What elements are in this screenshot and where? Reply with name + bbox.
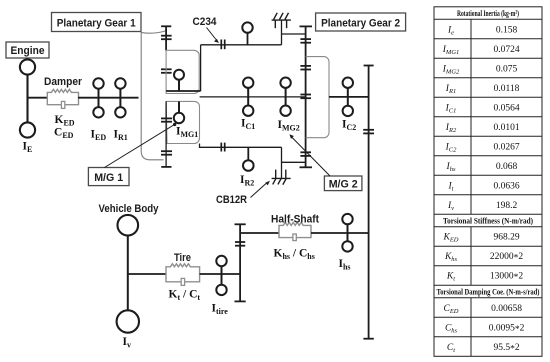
ground (case) hatch top — [272, 13, 291, 28]
engine inertia circle I_E — [20, 122, 35, 137]
svg-text:Half-Shaft: Half-Shaft — [271, 214, 319, 226]
label box: Engine — [6, 42, 49, 58]
svg-text:Khs / Chs: Khs / Chs — [274, 248, 315, 262]
arrow M/G1 to I_MG1 — [105, 123, 177, 168]
PG1 lever: top T-bar — [161, 25, 171, 27]
svg-text:CED: CED — [54, 127, 74, 141]
leader: PG1 box down to lower mesh — [141, 32, 163, 160]
wire: body to tire — [128, 273, 166, 275]
label box: Planetary Gear 1 — [52, 13, 142, 32]
damper K_ED/C_ED box — [47, 89, 78, 104]
PG2 gear mesh (main shaft) — [300, 95, 311, 99]
PG1 carrier link (rounded) — [166, 50, 199, 93]
inertia I_C2 dumbbell — [343, 78, 353, 117]
table frame — [434, 7, 542, 357]
svg-text:0.0636: 0.0636 — [493, 181, 519, 191]
label box: Planetary Gear 2 — [316, 13, 406, 31]
inertia circle I_MG1 — [174, 113, 184, 123]
svg-text:0.158: 0.158 — [496, 25, 518, 35]
arrow M/G2 to I_MG2 — [289, 134, 330, 176]
svg-text:Engine: Engine — [11, 45, 45, 57]
label box: M/G 2 — [324, 176, 362, 191]
stem of node — [247, 33, 249, 45]
inertia circle I_R2 — [243, 160, 254, 171]
svg-text:IMG2: IMG2 — [278, 119, 300, 133]
PG2 lever: top T-bar — [300, 25, 313, 27]
PG2 gear mesh (b) — [300, 66, 311, 70]
inertia I_MG2 dumbbell — [280, 78, 290, 116]
arrow CB12R — [251, 181, 270, 198]
wire: tire box to I_tire — [200, 273, 241, 275]
inertia I_tire dumbbell — [216, 256, 226, 295]
axle connector vertical — [239, 224, 241, 301]
inertia I_ED dumbbell — [93, 78, 103, 117]
wire: damper to PG1 — [78, 97, 139, 99]
svg-text:0.075: 0.075 — [496, 64, 518, 74]
output vertical shaft — [368, 66, 370, 339]
branch R2 to PG2 — [282, 161, 306, 163]
vehicle inertia circle I_v — [117, 310, 139, 332]
engine top node circle — [20, 59, 35, 74]
svg-text:0.0267: 0.0267 — [493, 142, 519, 152]
final drive gear mesh — [363, 130, 374, 134]
PG2 gear mesh (lower) — [300, 152, 311, 156]
svg-text:0.0564: 0.0564 — [493, 103, 519, 113]
svg-text:0.0724: 0.0724 — [493, 45, 519, 55]
leader: PG1 box to ring node (curve) — [141, 31, 166, 34]
svg-text:C234: C234 — [193, 16, 218, 28]
wire: R2 line — [200, 144, 282, 148]
svg-text:Ihs: Ihs — [339, 258, 351, 272]
half-shaft damper box — [279, 222, 311, 237]
svg-text:Kt / Ct: Kt / Ct — [169, 289, 201, 303]
wire: C234 clutch line — [201, 44, 282, 46]
label box: M/G 1 — [88, 168, 129, 186]
stem of sun node — [178, 80, 180, 91]
PG1 lever stem — [165, 26, 167, 50]
riser hatch to C234 line — [281, 20, 283, 45]
dashpot symbol in tire box — [181, 278, 184, 285]
svg-text:0.0118: 0.0118 — [494, 84, 520, 94]
svg-text:IC2: IC2 — [342, 119, 356, 133]
svg-text:0.00658: 0.00658 — [491, 304, 522, 314]
inertia I_hs dumbbell — [342, 214, 352, 252]
svg-text:M/G 1: M/G 1 — [94, 172, 123, 184]
svg-text:Damper: Damper — [44, 76, 83, 88]
ground (case) hatch bottom CB12R — [272, 170, 291, 185]
wire: output shaft to I_C2 — [329, 96, 369, 98]
svg-text:Iv: Iv — [123, 336, 131, 350]
clutch CB1 plates on R2 line — [221, 143, 224, 152]
axle gear mesh — [235, 242, 245, 246]
svg-text:968.29: 968.29 — [493, 232, 519, 242]
svg-text:Planetary Gear 2: Planetary Gear 2 — [321, 18, 400, 30]
svg-text:KED: KED — [55, 114, 75, 128]
PG1 lower stem — [165, 101, 167, 166]
svg-text:IR1: IR1 — [114, 129, 128, 143]
svg-text:IC1: IC1 — [241, 117, 255, 131]
svg-text:198.2: 198.2 — [496, 201, 518, 211]
wire: axle to half-shaft box — [240, 232, 279, 234]
PG2 lever stem — [305, 26, 307, 167]
svg-text:Torsional Damping Coe. (N-m-s/: Torsional Damping Coe. (N-m-s/rad) — [437, 288, 540, 297]
svg-text:0.068: 0.068 — [496, 162, 518, 172]
svg-text:Torsional Stiffness (N-m/rad): Torsional Stiffness (N-m/rad) — [443, 217, 533, 226]
PG1 gear mesh (lower b) — [161, 151, 172, 155]
svg-text:Itire: Itire — [212, 303, 229, 317]
inertia I_C1 dumbbell — [243, 78, 253, 116]
branch to PG2 ring — [282, 33, 306, 35]
PG2 carrier link (rounded) — [306, 57, 329, 138]
vehicle body top circle — [118, 215, 139, 236]
PG1 bottom bar of upper assembly — [166, 90, 201, 92]
svg-text:0.0101: 0.0101 — [493, 123, 519, 133]
table row lines — [434, 19, 542, 337]
riser R2 to brake hatch — [281, 147, 283, 178]
stem of I_R2 — [247, 147, 249, 160]
engine shaft vertical — [26, 75, 28, 123]
riser to C234 line — [200, 45, 202, 91]
vehicle body shaft — [127, 236, 129, 311]
svg-text:IE: IE — [23, 141, 33, 155]
PG1 gear mesh (ring) — [161, 36, 172, 40]
node circle on C234 line — [242, 22, 252, 32]
PG1 lower link box (rounded) — [166, 101, 199, 143]
svg-text:Vehicle Body: Vehicle Body — [99, 203, 160, 215]
svg-text:IR2: IR2 — [240, 174, 254, 188]
output bottom T-bar — [363, 338, 373, 340]
svg-text:Rotational Inertia (kg-m2): Rotational Inertia (kg-m2) — [457, 9, 519, 18]
table column separator — [470, 19, 472, 356]
dashpot symbol in half-shaft box — [293, 234, 296, 241]
svg-text:Tire: Tire — [174, 252, 191, 264]
inertia I_R1 dumbbell — [115, 78, 125, 117]
PG2 bottom T-bar — [300, 166, 313, 168]
axle connector top T-bar — [235, 223, 246, 225]
axle connector bottom T-bar — [235, 300, 246, 302]
PG1 sun node circle — [174, 70, 184, 80]
svg-text:IED: IED — [91, 129, 107, 143]
stem of I_MG1 — [178, 101, 180, 112]
wire: engine to damper — [28, 97, 48, 99]
PG2 gear mesh (ring) — [300, 39, 311, 43]
PG1 bottom T-bar — [161, 166, 171, 168]
wire: half-shaft to output — [311, 232, 369, 234]
svg-text:Planetary Gear 1: Planetary Gear 1 — [57, 18, 136, 30]
svg-text:IMG1: IMG1 — [176, 126, 198, 140]
dashpot symbol in damper — [61, 101, 64, 108]
PG1 gear mesh (lower a) — [161, 118, 172, 121]
svg-text:M/G 2: M/G 2 — [329, 179, 358, 191]
svg-text:CB12R: CB12R — [216, 194, 247, 206]
parameter table — [434, 7, 542, 357]
arrow C234 — [207, 28, 220, 43]
wire: main middle shaft — [200, 96, 306, 98]
clutch C234 plates — [221, 40, 224, 50]
output top T-bar — [364, 65, 374, 67]
tire damper box — [166, 264, 200, 282]
PG1 gear mesh (carrier) — [161, 69, 172, 73]
